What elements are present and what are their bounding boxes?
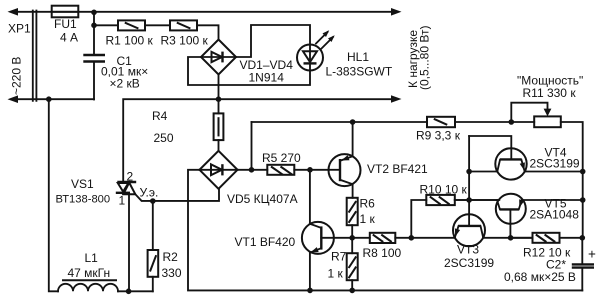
svg-text:2SC3199: 2SC3199 xyxy=(530,157,580,171)
svg-text:FU1: FU1 xyxy=(54,17,77,31)
svg-text:L-383SGWT: L-383SGWT xyxy=(326,65,393,79)
svg-text:1N914: 1N914 xyxy=(249,71,285,85)
svg-text:330: 330 xyxy=(162,266,182,280)
svg-text:R2: R2 xyxy=(163,250,179,264)
svg-text:VS1: VS1 xyxy=(71,177,94,191)
svg-text:VT1 BF420: VT1 BF420 xyxy=(235,235,296,249)
svg-text:VT3: VT3 xyxy=(457,243,479,257)
svg-text:R8 100: R8 100 xyxy=(363,246,402,260)
svg-text:VD5 КЦ407А: VD5 КЦ407А xyxy=(227,192,298,206)
svg-text:0,68 мк×25 В: 0,68 мк×25 В xyxy=(504,270,576,284)
svg-text:R11 330 к: R11 330 к xyxy=(523,86,577,100)
svg-text:(0,5...80 Вт): (0,5...80 Вт) xyxy=(418,26,432,90)
svg-text:У.э.: У.э. xyxy=(140,186,159,200)
svg-text:L1: L1 xyxy=(85,251,99,265)
svg-text:2SC3199: 2SC3199 xyxy=(444,256,494,270)
svg-text:ХР1: ХР1 xyxy=(8,22,31,36)
svg-text:R4: R4 xyxy=(152,109,168,123)
svg-text:2SA1048: 2SA1048 xyxy=(530,208,580,222)
svg-text:+: + xyxy=(588,247,596,262)
svg-text:R7: R7 xyxy=(331,250,347,264)
svg-text:R10 10 к: R10 10 к xyxy=(420,183,468,197)
svg-text:R3 100 к: R3 100 к xyxy=(161,34,209,48)
svg-text:ВТ138-800: ВТ138-800 xyxy=(56,194,111,206)
svg-text:VT2 BF421: VT2 BF421 xyxy=(367,162,428,176)
svg-text:1 к: 1 к xyxy=(328,267,344,281)
svg-text:1: 1 xyxy=(119,194,126,208)
svg-text:R6: R6 xyxy=(360,197,376,211)
svg-text:R5 270: R5 270 xyxy=(262,151,301,165)
svg-text:2: 2 xyxy=(127,170,134,184)
svg-text:R1 100 к: R1 100 к xyxy=(106,34,154,48)
svg-text:4 А: 4 А xyxy=(60,31,78,45)
svg-text:R9 3,3 к: R9 3,3 к xyxy=(416,129,461,143)
svg-text:47 мкГн: 47 мкГн xyxy=(68,266,111,280)
svg-text:250: 250 xyxy=(154,131,174,145)
svg-text:×2 кВ: ×2 кВ xyxy=(110,77,140,91)
svg-text:1 к: 1 к xyxy=(360,212,376,226)
svg-text:HL1: HL1 xyxy=(347,50,369,64)
svg-text:~220 В: ~220 В xyxy=(10,57,24,95)
